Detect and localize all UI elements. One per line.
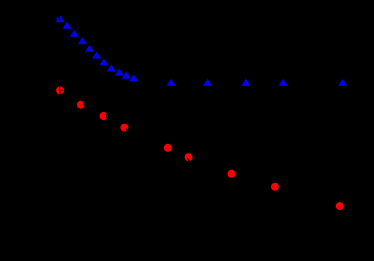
triangle point 3: [62, 22, 71, 29]
triangle point 7: [92, 52, 101, 59]
red circle series: [56, 86, 344, 210]
triangle point 5: [78, 37, 87, 44]
blue triangle series: [56, 15, 348, 86]
triangle point 14: [203, 79, 212, 86]
red fit notch circle 3: [106, 114, 107, 119]
small dark nick on right half of circle 1: [61, 89, 63, 91]
black (invisible on black bg) fit lines cutting notches through overlapped markers: [59, 15, 189, 161]
triangle point 12: [129, 74, 138, 81]
circle point 7: [228, 170, 236, 178]
circle point 9: [336, 202, 344, 210]
blue fit line notch between triangle pair apexes: [58, 15, 60, 22]
red fit notch circle 6: [187, 158, 189, 162]
triangle point 16: [279, 79, 288, 86]
triangle point 11: [122, 72, 131, 79]
circle point 8: [271, 183, 279, 191]
triangle point 6: [85, 45, 94, 52]
circle point 3: [100, 112, 108, 120]
triangle point 4: [70, 30, 79, 37]
triangle point 9: [107, 65, 116, 72]
red fit line notch over circle 1: [59, 86, 62, 95]
triangle point 2: [56, 15, 65, 22]
circle point 5: [164, 144, 172, 152]
triangle point 17: [338, 79, 347, 86]
circle point 1: [56, 86, 64, 94]
triangle point 8: [100, 58, 109, 65]
red fit notch circle 2: [83, 101, 85, 106]
circle point 4: [120, 124, 128, 132]
triangle point 10: [115, 69, 124, 76]
triangle point 15: [241, 79, 250, 86]
red fit notch circle 4: [126, 129, 128, 133]
circle point 2: [77, 101, 85, 109]
circle point 6: [185, 153, 193, 161]
triangle point 1 (nearly coincident with point 2): [56, 17, 59, 20]
triangle point 13: [167, 79, 176, 86]
